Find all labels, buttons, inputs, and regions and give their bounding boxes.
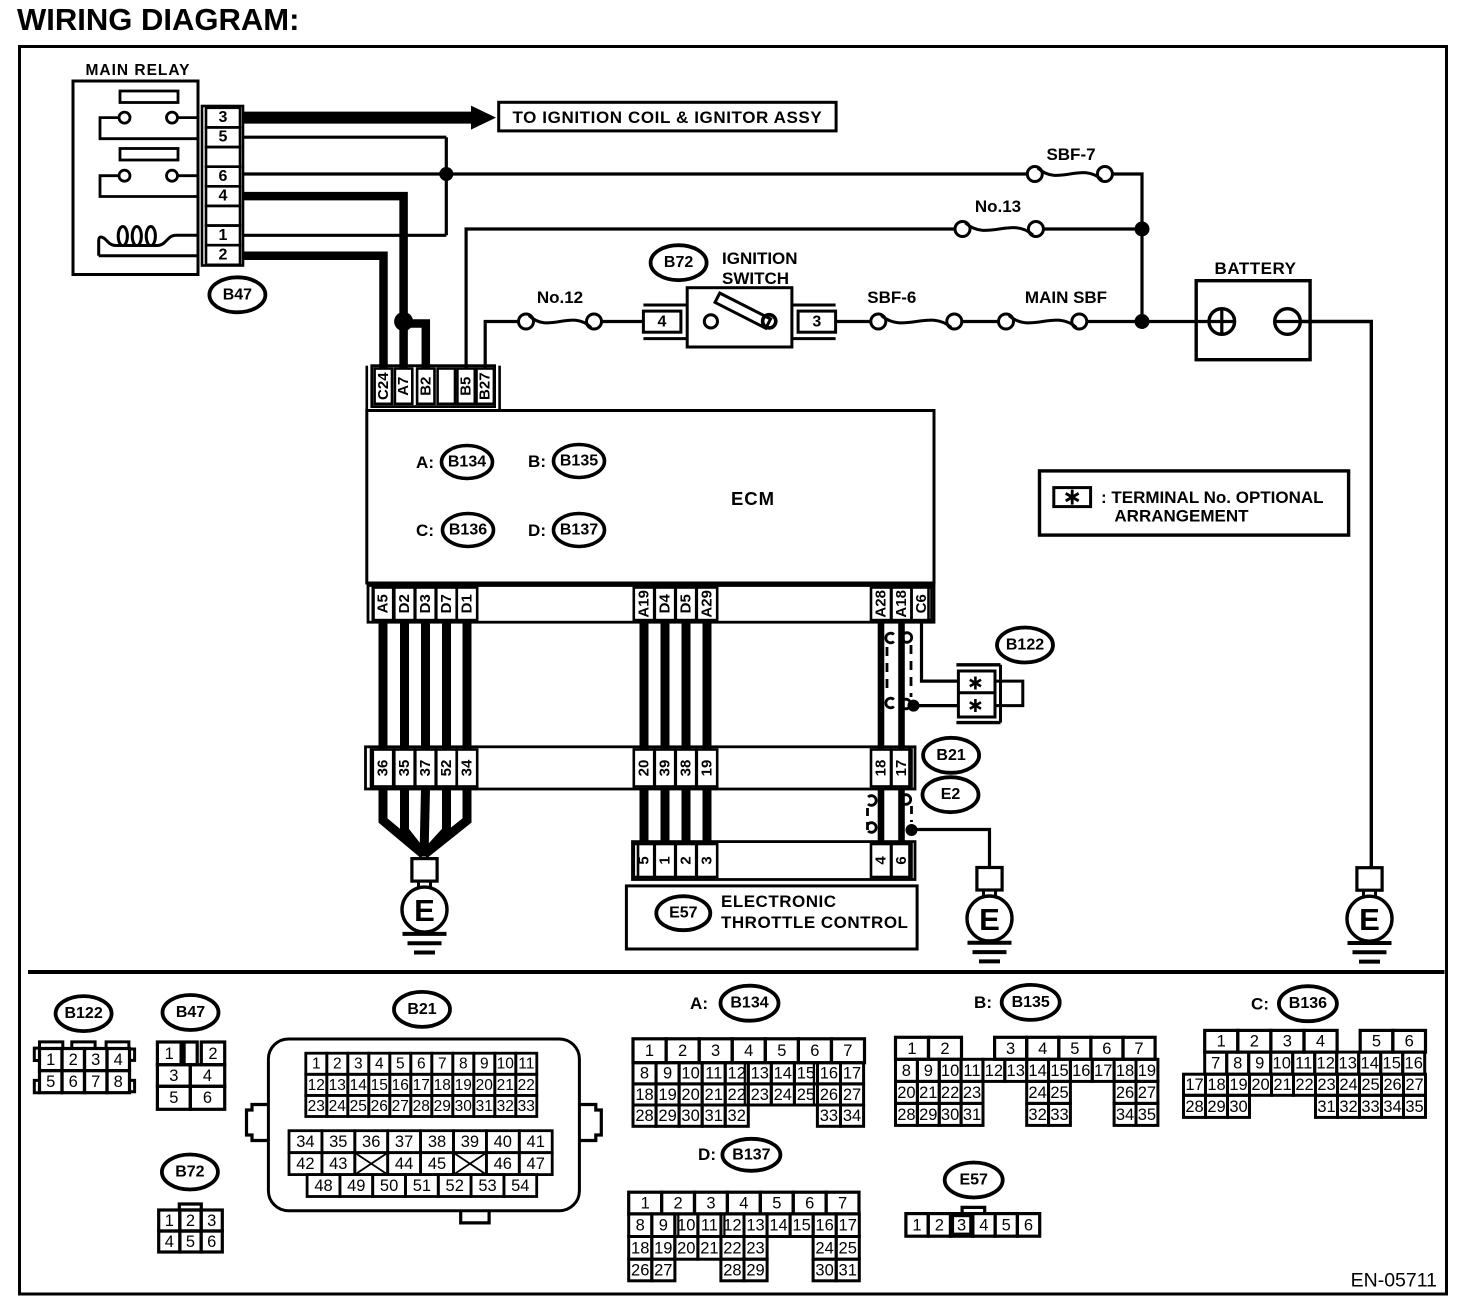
connector label B122 (pinout): [56, 996, 112, 1031]
svg-text:C6: C6: [913, 594, 930, 613]
svg-text:15: 15: [371, 1077, 388, 1094]
svg-text:B122: B122: [64, 1005, 102, 1022]
label A: B134: [416, 446, 492, 479]
svg-text:30: 30: [815, 1261, 833, 1279]
svg-text:A19: A19: [636, 590, 653, 618]
svg-text:25: 25: [797, 1086, 815, 1104]
svg-text:1: 1: [165, 1212, 174, 1230]
svg-text:37: 37: [395, 1133, 413, 1151]
svg-text:17: 17: [1185, 1076, 1203, 1094]
svg-text:3: 3: [957, 1216, 966, 1234]
svg-text:39: 39: [657, 760, 674, 777]
svg-text:C24: C24: [375, 372, 392, 400]
svg-text:16: 16: [815, 1217, 833, 1235]
svg-text:15: 15: [1050, 1062, 1068, 1080]
svg-text:E57: E57: [669, 905, 698, 922]
svg-text:WIRING DIAGRAM:: WIRING DIAGRAM:: [17, 2, 299, 37]
svg-text:25: 25: [839, 1239, 857, 1257]
relay contact 1 wiring: [100, 118, 198, 139]
svg-text:3: 3: [91, 1051, 100, 1069]
svg-text:14: 14: [1028, 1062, 1046, 1080]
svg-text:SBF-7: SBF-7: [1046, 145, 1095, 164]
svg-text:26: 26: [1383, 1076, 1401, 1094]
svg-text:28: 28: [897, 1106, 915, 1124]
svg-text:23: 23: [1317, 1076, 1335, 1094]
svg-text:B136: B136: [449, 522, 487, 539]
svg-text:8: 8: [114, 1073, 123, 1091]
svg-text:4: 4: [165, 1233, 174, 1251]
label B: B135: [528, 445, 604, 478]
svg-text:B136: B136: [1289, 995, 1327, 1012]
svg-text:6: 6: [893, 856, 910, 864]
svg-text:35: 35: [329, 1133, 347, 1151]
relay contact bar 2: [120, 149, 178, 161]
svg-text:7: 7: [843, 1042, 852, 1060]
svg-text:31: 31: [1317, 1098, 1335, 1116]
svg-text:D1: D1: [459, 594, 476, 613]
svg-text:31: 31: [476, 1098, 493, 1115]
svg-text:4: 4: [114, 1051, 123, 1069]
connector label B: B135: [974, 985, 1060, 1020]
svg-text:B135: B135: [1012, 994, 1050, 1011]
svg-text:40: 40: [494, 1133, 512, 1151]
svg-text:19: 19: [699, 760, 716, 777]
svg-text:4: 4: [219, 188, 228, 205]
svg-text:41: 41: [527, 1133, 545, 1151]
connector label B47 (pinout): [163, 995, 219, 1030]
svg-text:19: 19: [1138, 1062, 1156, 1080]
svg-text:B47: B47: [223, 286, 252, 303]
svg-text:A5: A5: [375, 594, 392, 613]
wire battery minus to ground E: [1300, 322, 1371, 868]
svg-text:6: 6: [207, 1233, 216, 1251]
svg-text:54: 54: [511, 1177, 529, 1195]
svg-text:12: 12: [728, 1065, 746, 1083]
wire relay pin4 to ECM A7: [243, 196, 404, 368]
wire ECM A5 to B21 row: [379, 622, 388, 749]
svg-text:18: 18: [873, 760, 890, 777]
svg-text:E: E: [1359, 902, 1380, 937]
svg-text:13: 13: [746, 1217, 764, 1235]
svg-text:22: 22: [723, 1239, 741, 1257]
battery: [1196, 259, 1310, 360]
svg-text:13: 13: [1339, 1055, 1357, 1073]
svg-text:C:: C:: [416, 521, 434, 540]
connector label B47: [209, 277, 265, 312]
svg-text:4: 4: [1038, 1040, 1047, 1058]
svg-text:10: 10: [681, 1065, 699, 1083]
svg-text:46: 46: [494, 1155, 512, 1173]
svg-text:29: 29: [1207, 1098, 1225, 1116]
svg-text:12: 12: [985, 1062, 1003, 1080]
wire ECM D1 to B21 row: [463, 622, 472, 749]
svg-text:44: 44: [395, 1155, 413, 1173]
svg-text:37: 37: [417, 760, 434, 777]
svg-text:5: 5: [636, 856, 653, 864]
relay contact 2 wiring: [100, 176, 198, 197]
svg-text:1: 1: [1217, 1033, 1226, 1051]
svg-text:D:: D:: [698, 1145, 716, 1164]
svg-text:25: 25: [350, 1098, 367, 1115]
wire SBF-6 to MAIN SBF: [962, 320, 999, 323]
svg-text:53: 53: [478, 1177, 496, 1195]
svg-text:11: 11: [518, 1056, 534, 1073]
svg-text:28: 28: [635, 1107, 653, 1125]
svg-text:29: 29: [658, 1107, 676, 1125]
fuse No.12: [519, 288, 602, 329]
relay contact 1 terminals: [119, 112, 178, 123]
svg-text:D:: D:: [528, 521, 546, 540]
svg-text:30: 30: [681, 1107, 699, 1125]
svg-text:1: 1: [312, 1056, 321, 1073]
connector row B21 pins 36/35/37/52/34 20/39/38/19 18/17: [366, 747, 916, 789]
svg-text:11: 11: [1295, 1055, 1312, 1073]
svg-text:28: 28: [413, 1098, 430, 1115]
svg-text:20: 20: [677, 1239, 695, 1257]
wire ECM A18 to pin 17: [898, 622, 905, 749]
svg-text:5: 5: [219, 129, 228, 146]
wire B21 39 to E57: [661, 789, 670, 844]
svg-text:3: 3: [711, 1042, 720, 1060]
svg-text:14: 14: [774, 1065, 792, 1083]
svg-text:D3: D3: [417, 594, 434, 613]
svg-text:34: 34: [1383, 1098, 1401, 1116]
svg-text:2: 2: [678, 1042, 687, 1060]
svg-text:36: 36: [362, 1133, 380, 1151]
svg-text:4: 4: [1316, 1033, 1325, 1051]
svg-text:8: 8: [902, 1062, 911, 1080]
svg-text:6: 6: [417, 1056, 426, 1073]
svg-text:52: 52: [438, 760, 455, 777]
ECM bottom pin row: [368, 586, 934, 623]
fuse SBF-6: [867, 288, 962, 329]
svg-text:6: 6: [805, 1195, 814, 1213]
svg-text:B134: B134: [730, 995, 768, 1012]
label D: B137: [528, 514, 604, 547]
svg-text:19: 19: [455, 1077, 472, 1094]
svg-text:21: 21: [919, 1084, 937, 1102]
svg-text:31: 31: [963, 1106, 981, 1124]
connector label D: B137: [698, 1139, 780, 1171]
svg-text:19: 19: [654, 1239, 672, 1257]
wire relay pin2 to ECM C24: [243, 256, 384, 369]
svg-text:24: 24: [329, 1098, 347, 1115]
electronic throttle control box: [626, 886, 917, 949]
svg-text:22: 22: [518, 1077, 535, 1094]
svg-text:31: 31: [839, 1261, 857, 1279]
svg-text:13: 13: [751, 1065, 769, 1083]
svg-text:B122: B122: [1006, 637, 1044, 654]
connector label E57 (pinout): [945, 1163, 1003, 1198]
wire No.12 to ignition switch pin4: [602, 320, 644, 323]
connector B72 pinout grid: [159, 1204, 223, 1252]
svg-text:32: 32: [497, 1098, 514, 1115]
wire switch to SBF-6: [836, 320, 871, 323]
connector label C: B136: [1251, 986, 1337, 1021]
svg-text:30: 30: [941, 1106, 959, 1124]
label C: B136: [416, 514, 493, 547]
svg-text:B135: B135: [560, 453, 598, 470]
svg-text:8: 8: [636, 1217, 645, 1235]
svg-text:21: 21: [700, 1239, 718, 1257]
svg-text:6: 6: [1405, 1033, 1414, 1051]
svg-text:B72: B72: [664, 254, 693, 271]
svg-text:16: 16: [1405, 1055, 1423, 1073]
svg-text:20: 20: [897, 1084, 915, 1102]
svg-text:2: 2: [1250, 1033, 1259, 1051]
ground E (right): [1347, 868, 1392, 962]
svg-text:ELECTRONIC: ELECTRONIC: [721, 892, 837, 911]
svg-text:14: 14: [350, 1077, 368, 1094]
connector label E57 (schematic): [656, 896, 710, 930]
svg-text:2: 2: [186, 1212, 195, 1230]
connector label E2 (schematic): [923, 777, 979, 812]
svg-text:52: 52: [446, 1177, 464, 1195]
svg-text:11: 11: [705, 1065, 722, 1083]
svg-text:5: 5: [46, 1073, 55, 1091]
optional-terminal marks (18/17 wires): [868, 795, 912, 833]
svg-text:35: 35: [1138, 1106, 1156, 1124]
wire vertical pin5-pin6-pin1 bus: [445, 137, 448, 235]
svg-text:24: 24: [1028, 1084, 1046, 1102]
wire B21 19 to E57: [703, 789, 712, 844]
svg-text:1: 1: [912, 1216, 921, 1234]
section divider line: [28, 970, 1445, 974]
svg-text:27: 27: [392, 1098, 409, 1115]
junction B122 lower pin: [908, 700, 920, 712]
svg-text:19: 19: [658, 1086, 676, 1104]
svg-text:32: 32: [728, 1107, 746, 1125]
svg-text:4: 4: [658, 314, 667, 331]
wire ECM D3 to B21 row: [421, 622, 430, 749]
svg-text:10: 10: [1273, 1055, 1291, 1073]
svg-text:29: 29: [746, 1261, 764, 1279]
ignition switch terminal 3: [792, 305, 836, 339]
wire ECM D5 to B21 row: [682, 622, 691, 749]
svg-text:20: 20: [476, 1077, 494, 1094]
svg-text:5: 5: [772, 1195, 781, 1213]
svg-text:18: 18: [1116, 1062, 1134, 1080]
wire MAIN SBF to battery: [1087, 320, 1209, 323]
junction ground tap: [906, 824, 918, 836]
svg-text:49: 49: [347, 1177, 365, 1195]
svg-text:36: 36: [375, 760, 392, 777]
svg-text:20: 20: [636, 760, 653, 777]
ignition switch B72: [687, 288, 792, 347]
wire ECM A19 to B21 row: [640, 622, 649, 749]
wire pin17 to E57 pin6: [898, 789, 905, 844]
svg-text:C:: C:: [1251, 995, 1269, 1014]
wire relay pin3 to ignition coil (arrow): [243, 106, 496, 130]
svg-text:B137: B137: [732, 1146, 770, 1163]
svg-text:4: 4: [203, 1067, 212, 1085]
svg-text:5: 5: [777, 1042, 786, 1060]
svg-text:22: 22: [941, 1084, 959, 1102]
svg-text:50: 50: [380, 1177, 398, 1195]
svg-text:7: 7: [838, 1195, 847, 1213]
svg-text:2: 2: [219, 247, 228, 264]
svg-text:21: 21: [1273, 1076, 1291, 1094]
svg-text:5: 5: [169, 1089, 178, 1107]
svg-text:B:: B:: [974, 993, 992, 1012]
svg-text:B2: B2: [417, 377, 434, 396]
svg-text:43: 43: [329, 1155, 347, 1173]
svg-text:D4: D4: [657, 594, 674, 614]
svg-text:D7: D7: [438, 594, 455, 613]
svg-text:B47: B47: [176, 1004, 205, 1021]
connector row E57 pins 5/1/2/3 4/6: [633, 842, 916, 880]
ECM top connector row (C24 A7 B2 B5 B27): [367, 366, 500, 411]
svg-text:8: 8: [459, 1056, 468, 1073]
svg-text:26: 26: [631, 1261, 649, 1279]
svg-text:ARRANGEMENT: ARRANGEMENT: [1114, 507, 1249, 526]
svg-text:26: 26: [371, 1098, 388, 1115]
wire ECM B5 to fuse No.13: [466, 229, 955, 369]
wire ECM D4 to B21 row: [661, 622, 670, 749]
svg-text:27: 27: [654, 1261, 672, 1279]
svg-text:2: 2: [678, 856, 695, 864]
svg-text:4: 4: [739, 1195, 748, 1213]
svg-text:7: 7: [1211, 1055, 1220, 1073]
svg-text:35: 35: [1405, 1098, 1423, 1116]
svg-text:B21: B21: [936, 747, 965, 764]
svg-text:27: 27: [1405, 1076, 1423, 1094]
junction pin6 tap: [439, 167, 453, 181]
svg-text:5: 5: [1070, 1040, 1079, 1058]
svg-text:48: 48: [314, 1177, 332, 1195]
wire ECM B27 to fuse No.12: [485, 322, 518, 369]
svg-text:32: 32: [1028, 1106, 1046, 1124]
wire No.13 to junction: [1043, 227, 1142, 230]
svg-text:2: 2: [674, 1195, 683, 1213]
svg-text:B72: B72: [175, 1164, 204, 1181]
svg-text:2: 2: [940, 1040, 949, 1058]
svg-text:27: 27: [1138, 1084, 1156, 1102]
svg-text:2: 2: [333, 1056, 342, 1073]
svg-text:38: 38: [678, 760, 695, 777]
svg-text:30: 30: [1229, 1098, 1247, 1116]
svg-text:1: 1: [641, 1195, 650, 1213]
svg-text:45: 45: [428, 1155, 446, 1173]
svg-text:6: 6: [219, 168, 228, 185]
connector B137 pinout: [629, 1192, 860, 1281]
ignition switch terminal 4: [643, 305, 687, 339]
svg-text:7: 7: [438, 1056, 447, 1073]
svg-text:38: 38: [428, 1133, 446, 1151]
svg-text:30: 30: [455, 1098, 473, 1115]
connector B135 pinout: [896, 1037, 1158, 1125]
connector B122 (schematic, optional terminals): [956, 665, 1022, 723]
svg-text:34: 34: [459, 759, 476, 776]
svg-text:18: 18: [635, 1086, 653, 1104]
svg-text:28: 28: [723, 1261, 741, 1279]
svg-text:3: 3: [699, 856, 716, 864]
svg-text:E: E: [414, 893, 435, 928]
fuse No.13: [955, 197, 1043, 237]
svg-text:IGNITION: IGNITION: [722, 249, 798, 268]
ground E (left): [402, 859, 447, 953]
svg-text:23: 23: [963, 1084, 981, 1102]
svg-text:: TERMINAL No. OPTIONAL: : TERMINAL No. OPTIONAL: [1101, 488, 1324, 507]
svg-text:3: 3: [219, 109, 228, 126]
svg-text:18: 18: [1207, 1076, 1225, 1094]
svg-text:15: 15: [797, 1065, 815, 1083]
ignition switch label: [722, 249, 798, 288]
svg-text:9: 9: [659, 1217, 668, 1235]
svg-text:16: 16: [820, 1065, 838, 1083]
relay contact bar 1: [120, 91, 178, 103]
svg-text:9: 9: [1255, 1055, 1264, 1073]
wires 36/35/37/52/34 to ground (funnel): [383, 789, 467, 857]
svg-text:B21: B21: [407, 1001, 436, 1018]
svg-text:No.12: No.12: [537, 288, 583, 307]
connector B134 pinout: [633, 1039, 865, 1127]
svg-text:51: 51: [413, 1177, 431, 1195]
svg-text:ECM: ECM: [731, 488, 775, 509]
svg-text:11: 11: [701, 1217, 718, 1235]
svg-text:B134: B134: [448, 454, 486, 471]
svg-text:34: 34: [843, 1107, 861, 1125]
svg-text:5: 5: [1002, 1216, 1011, 1234]
svg-text:1: 1: [657, 856, 674, 864]
svg-text:3: 3: [354, 1056, 363, 1073]
wire B21 38 to E57: [682, 789, 691, 844]
note: terminal no. optional arrangement: [1040, 471, 1349, 535]
svg-text:13: 13: [1007, 1062, 1025, 1080]
wire relay pin1: [243, 234, 446, 237]
connector label B122 (schematic): [997, 628, 1053, 663]
svg-text:8: 8: [1233, 1055, 1242, 1073]
svg-text:15: 15: [792, 1217, 810, 1235]
svg-text:10: 10: [677, 1217, 695, 1235]
svg-text:22: 22: [728, 1086, 746, 1104]
wire ECM D2 to B21 row: [400, 622, 409, 749]
svg-text:18: 18: [631, 1239, 649, 1257]
wire relay pin6 to fuse SBF-7: [243, 172, 1027, 175]
svg-text:16: 16: [1072, 1062, 1090, 1080]
svg-text:18: 18: [434, 1077, 451, 1094]
svg-text:23: 23: [746, 1239, 764, 1257]
svg-text:A29: A29: [699, 590, 716, 618]
svg-text:42: 42: [296, 1155, 314, 1173]
wire SBF-7 to battery bus: [1112, 174, 1142, 322]
wire ECM A29 to B21 row: [703, 622, 712, 749]
relay coil: [99, 227, 198, 256]
svg-text:21: 21: [497, 1077, 514, 1094]
svg-text:17: 17: [893, 760, 910, 777]
svg-text:A:: A:: [416, 453, 434, 472]
connector label B21 (pinout): [394, 992, 450, 1027]
svg-text:4: 4: [744, 1042, 753, 1060]
svg-text:MAIN SBF: MAIN SBF: [1025, 288, 1107, 307]
svg-text:1: 1: [219, 227, 228, 244]
svg-text:MAIN RELAY: MAIN RELAY: [85, 62, 190, 79]
svg-text:6: 6: [203, 1089, 212, 1107]
svg-text:D5: D5: [678, 594, 695, 613]
svg-text:6: 6: [1024, 1216, 1033, 1234]
svg-text:39: 39: [461, 1133, 479, 1151]
svg-text:1: 1: [46, 1051, 55, 1069]
svg-text:2: 2: [69, 1051, 78, 1069]
svg-text:24: 24: [774, 1086, 792, 1104]
svg-text:E2: E2: [941, 786, 961, 803]
svg-text:14: 14: [769, 1217, 787, 1235]
connector B47 pinout grid: [157, 1042, 224, 1109]
svg-text:4: 4: [375, 1056, 384, 1073]
main relay box: [73, 62, 198, 275]
svg-text:3: 3: [169, 1067, 178, 1085]
relay contact 2 terminals: [119, 170, 178, 181]
